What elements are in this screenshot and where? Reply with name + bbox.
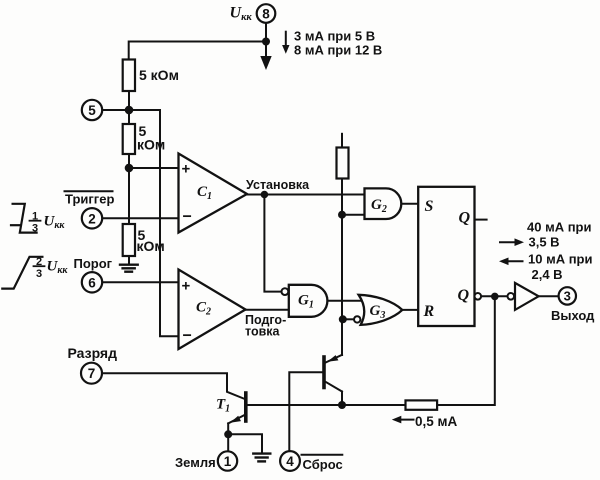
bubble at inverter input (508, 293, 515, 300)
pin 4 circle (280, 451, 300, 471)
resistor R3 5 kOm (123, 224, 135, 256)
fraction bar 1/3 (30, 220, 41, 222)
wire: Q stub (475, 219, 487, 221)
wire: pin5 to 2/3 line (102, 109, 160, 111)
wire: C2 output to G1 bottom input (246, 309, 289, 311)
waveform 1/3 Ukk trigger (11, 204, 37, 233)
wire: G2 output to S (401, 203, 418, 205)
overline Trigger (65, 190, 113, 192)
node: divider 2/3 junction (125, 106, 134, 115)
node: set line junction (261, 191, 269, 199)
wire: T2 collector to rail (341, 392, 343, 406)
gate G1 (289, 285, 328, 317)
node: divider 1/3 junction (125, 164, 134, 173)
pin 3 circle (559, 287, 576, 304)
wire: pin6 to C2 plus (102, 281, 179, 283)
svg-text:Порог: Порог (74, 256, 113, 271)
svg-text:+: + (182, 161, 191, 178)
bubble at notQ output (475, 293, 482, 300)
wire: 2/3 Ukk vertical to C2 minus (160, 110, 179, 336)
svg-text:T1: T1 (216, 397, 230, 415)
svg-text:0,5 мА: 0,5 мА (415, 414, 458, 429)
wire: notQ node down to feedback rail (437, 296, 495, 405)
svg-text:1: 1 (224, 454, 232, 469)
comparator C1 (179, 154, 248, 233)
svg-text:Сброс: Сброс (303, 457, 343, 472)
pin 5 circle (82, 100, 102, 120)
resistor internal pull-up (337, 148, 349, 179)
ground under R3 (120, 265, 138, 272)
resistor R2 5 kOm (123, 124, 135, 154)
svg-text:3 мА при 5 В: 3 мА при 5 В (294, 29, 375, 44)
node: feedback rail junction (338, 401, 346, 409)
node: T1 emitter junction (224, 430, 232, 438)
wire: R2 bottom to R3 top (128, 154, 130, 224)
wire: internal resistor down to T2 emitter (341, 179, 343, 356)
annotation arrow 0.5 mA left (392, 416, 414, 424)
resistor 0.5 mA feedback (406, 400, 438, 409)
node: supply rail junction (262, 38, 270, 46)
wire: C1 output to G2 top input (247, 194, 365, 196)
annotation arrow 40 mA right (500, 238, 524, 246)
wire: inverter to pin3 (539, 295, 559, 297)
svg-text:Uкк: Uкк (230, 5, 253, 24)
svg-text:Uкк: Uкк (44, 214, 66, 232)
svg-text:R: R (423, 303, 435, 320)
gate G2 (365, 188, 402, 219)
transistor T1 (228, 393, 246, 423)
svg-text:кОм: кОм (137, 238, 165, 254)
wire: node to C1 plus (129, 167, 179, 169)
svg-text:5 кОм: 5 кОм (139, 67, 179, 83)
wire: top supply rail (129, 42, 266, 60)
wire: feedback rail to T1 base (247, 404, 406, 406)
node: G3 input junction (339, 315, 347, 323)
svg-text:3: 3 (32, 223, 38, 235)
svg-text:1: 1 (32, 211, 38, 223)
overline Sbros (302, 454, 343, 456)
svg-text:−: − (183, 328, 192, 345)
node: notQ junction (491, 293, 499, 301)
svg-text:S: S (425, 198, 434, 215)
wire: set line down to G1 bubble (264, 195, 281, 292)
wire: T2 base to pin4 (289, 372, 323, 451)
svg-text:+: + (182, 278, 191, 295)
svg-text:40 мА при: 40 мА при (527, 220, 591, 235)
svg-text:2: 2 (88, 211, 96, 226)
fraction bar 2/3 (34, 265, 45, 267)
svg-text:5: 5 (88, 103, 96, 118)
bubble at G3 input (354, 316, 360, 322)
svg-text:3: 3 (564, 288, 571, 303)
wire: G1 output to G3 (327, 300, 363, 302)
svg-text:товка: товка (245, 325, 281, 339)
svg-text:кОм: кОм (137, 137, 165, 153)
wire: pin8 to top rail (265, 23, 267, 42)
comparator C2 (179, 270, 246, 350)
pin 1 circle (218, 451, 237, 470)
svg-text:8 мА при 12 В: 8 мА при 12 В (294, 43, 382, 58)
svg-text:Триггер: Триггер (65, 192, 114, 207)
wire: T1 emitter to ground node (227, 423, 229, 451)
bubble at G1 input (282, 288, 289, 295)
waveform 2/3 Ukk threshold (2, 257, 42, 289)
svg-text:2: 2 (36, 256, 42, 268)
transistor T2 (reset, pnp) (324, 355, 342, 392)
annotation arrow 10 mA left (499, 258, 523, 266)
wire: ground node to ground symbol (228, 434, 262, 452)
svg-text:3: 3 (36, 268, 42, 280)
wire: pin7 to T1 collector (103, 373, 245, 399)
wire: node to G3 bubble input (343, 318, 354, 320)
wire: stub above internal resistor (341, 134, 343, 148)
pin 2 circle (82, 208, 102, 228)
gate G3 (359, 295, 403, 325)
resistor R1 5 kOm (123, 60, 135, 92)
svg-text:Q: Q (458, 287, 470, 304)
svg-text:6: 6 (88, 275, 96, 290)
pin 8 circle (257, 4, 276, 23)
wire: R1 bottom to node (128, 91, 130, 124)
svg-text:−: − (183, 209, 192, 226)
wire: R3 bottom to ground (128, 256, 130, 264)
svg-text:Земля: Земля (175, 455, 216, 470)
svg-text:Выход: Выход (551, 308, 595, 323)
pin 7 circle (81, 363, 102, 384)
ground near T1 (253, 454, 270, 462)
wire: node to G2 bottom input (342, 214, 365, 216)
current arrow at pin 8 (260, 46, 271, 71)
wire: G3 output to R (402, 309, 418, 311)
wire: notQ bubble to inverter bubble (481, 295, 507, 297)
svg-text:4: 4 (286, 454, 294, 469)
svg-text:Q: Q (459, 210, 471, 227)
svg-text:Установка: Установка (246, 178, 310, 192)
svg-text:3,5 В: 3,5 В (529, 235, 560, 250)
inverter buffer (515, 283, 539, 310)
svg-text:2,4 В: 2,4 В (532, 267, 563, 282)
svg-text:10 мА при: 10 мА при (528, 252, 592, 267)
svg-text:8: 8 (262, 7, 270, 22)
svg-text:Разряд: Разряд (68, 345, 118, 361)
pin 6 circle (82, 272, 102, 292)
annotation arrow 3/8 mA (282, 32, 289, 54)
svg-text:Uкк: Uкк (47, 259, 69, 277)
node: G2 input junction (338, 211, 346, 219)
latch box (418, 187, 474, 326)
wire: pin2 to C1 minus (102, 217, 179, 219)
svg-text:7: 7 (88, 366, 96, 381)
